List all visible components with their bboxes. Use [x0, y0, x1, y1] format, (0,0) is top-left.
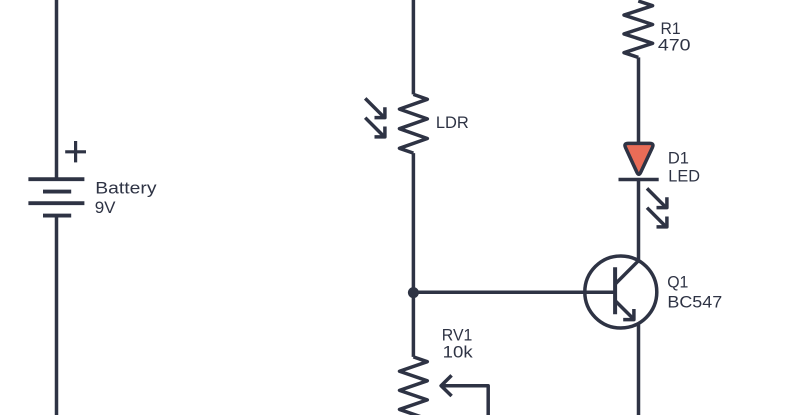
- svg-text:LDR: LDR: [436, 113, 469, 132]
- svg-text:9V: 9V: [95, 198, 116, 217]
- svg-text:470: 470: [658, 36, 691, 55]
- wire junction to RV1: [412, 292, 416, 357]
- LED D1 triangle: [625, 143, 653, 174]
- wire emitter to bottom: [637, 323, 641, 415]
- svg-text:D1: D1: [668, 149, 689, 168]
- transistor Q1 collector diagonal: [615, 261, 638, 284]
- wire base from junction to transistor: [413, 290, 615, 294]
- LED D1 light arrow 2: [647, 208, 667, 227]
- wire LDR top: [412, 0, 416, 94]
- junction node: [408, 287, 419, 298]
- potentiometer RV1 body: [400, 357, 428, 415]
- svg-text:LED: LED: [668, 167, 700, 186]
- wire battery bottom: [55, 216, 59, 415]
- svg-text:RV1: RV1: [442, 325, 473, 344]
- svg-text:BC547: BC547: [667, 293, 722, 312]
- wire LED to transistor collector: [637, 179, 641, 260]
- transistor Q1 emitter arrowhead: [623, 309, 634, 320]
- wire LDR to junction: [412, 153, 416, 292]
- transistor Q1 emitter diagonal: [615, 301, 634, 320]
- resistor LDR body: [399, 94, 427, 153]
- svg-text:10k: 10k: [443, 343, 474, 362]
- LDR light arrow 1: [365, 98, 385, 117]
- svg-text:Q1: Q1: [667, 273, 688, 292]
- battery BAT1 plates: [28, 179, 84, 215]
- LDR light arrow 2: [365, 118, 385, 137]
- potentiometer RV1 wiper arrow: [441, 375, 488, 415]
- LED D1 light arrow 1: [647, 188, 667, 207]
- svg-text:Battery: Battery: [95, 179, 157, 198]
- LED D1 cathode bar: [619, 178, 659, 182]
- transistor Q1 circle: [585, 256, 657, 328]
- wire R1 to LED: [637, 57, 641, 144]
- battery BAT1 plus sign: [65, 141, 86, 162]
- resistor R1 body: [624, 1, 653, 57]
- wire battery top: [55, 0, 59, 179]
- transistor Q1 base bar: [613, 267, 617, 314]
